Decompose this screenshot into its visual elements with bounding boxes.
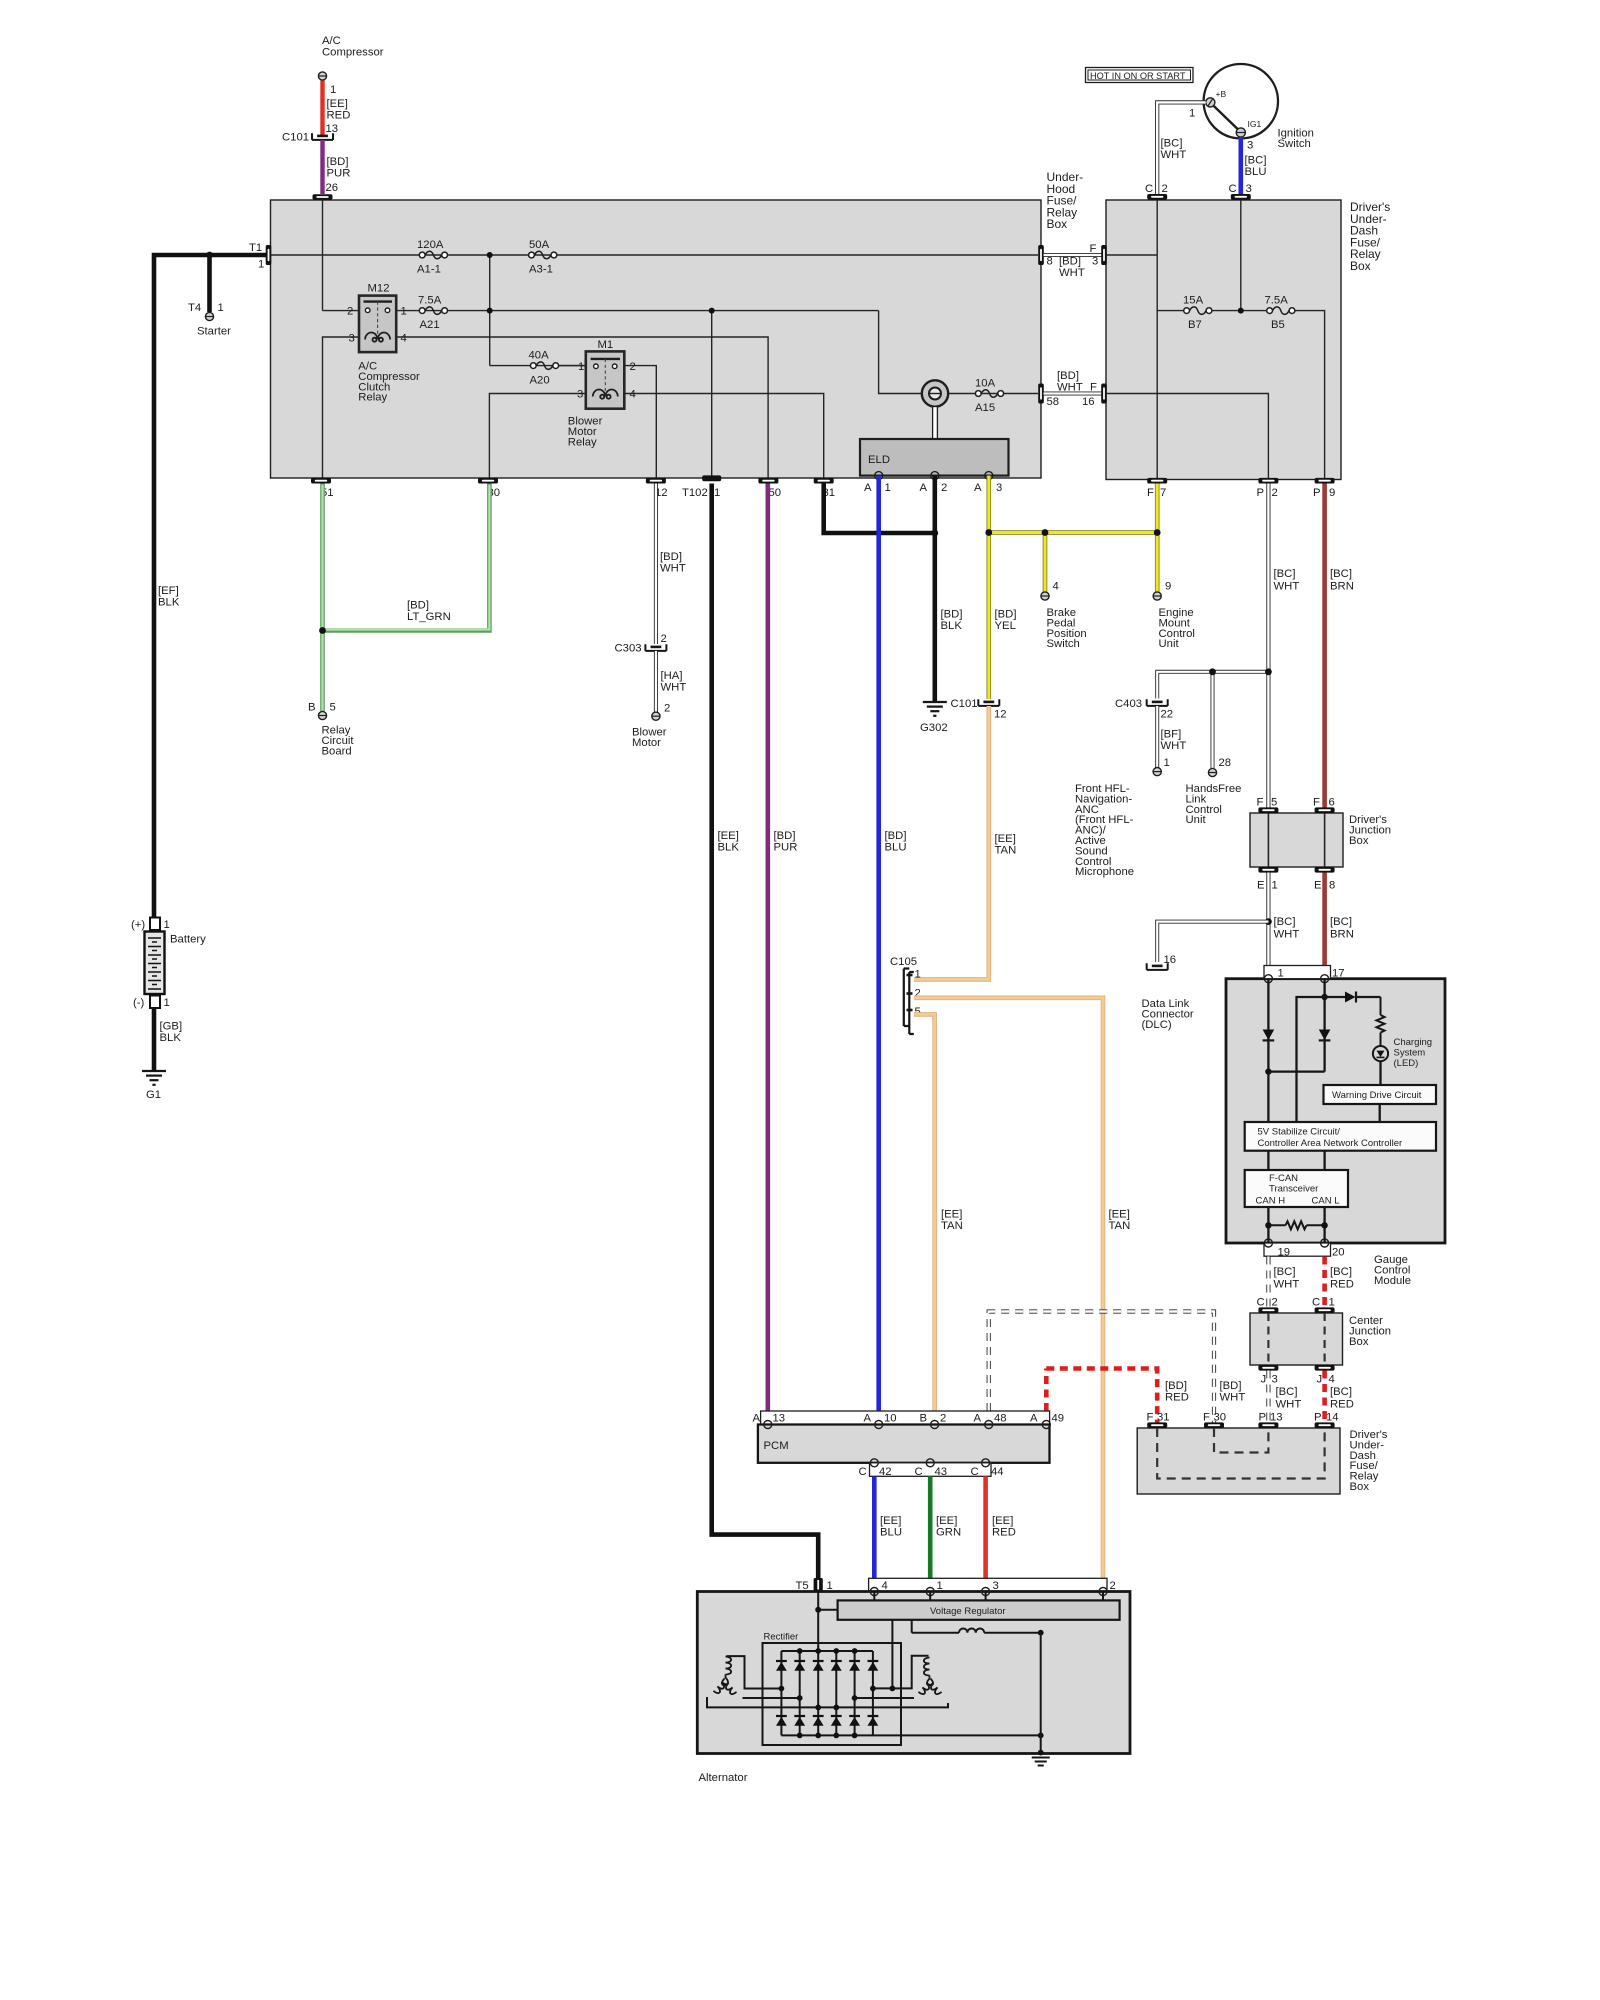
ground G1	[142, 1071, 166, 1085]
node field coil right	[1038, 1630, 1044, 1636]
svg-text:2: 2	[1272, 1297, 1278, 1309]
node col2 tap	[797, 1695, 803, 1701]
svg-text:C: C	[1257, 1297, 1265, 1309]
fuse 50A A3-1	[529, 251, 557, 259]
rectifier top bus	[781, 1650, 873, 1652]
svg-text:Compressor: Compressor	[322, 47, 384, 59]
Under-Hood Fuse/Relay Box body	[271, 200, 1042, 478]
svg-text:WHT: WHT	[1057, 382, 1083, 394]
svg-text:C: C	[1145, 183, 1153, 195]
svg-text:HOT IN ON OR START: HOT IN ON OR START	[1090, 71, 1186, 81]
svg-text:2: 2	[941, 482, 947, 494]
svg-text:F: F	[1090, 382, 1097, 394]
svg-text:Box: Box	[1349, 835, 1369, 847]
svg-text:C403: C403	[1115, 698, 1142, 710]
wire M1 pin4 to bar 31	[624, 394, 823, 479]
svg-text:Switch: Switch	[1278, 138, 1311, 150]
svg-text:1: 1	[885, 482, 891, 494]
svg-text:[EE]: [EE]	[327, 98, 348, 110]
relay M1 blower motor relay	[586, 351, 625, 408]
svg-text:A1-1: A1-1	[417, 264, 441, 276]
svg-text:Unit: Unit	[1186, 814, 1207, 826]
connector C303	[645, 644, 666, 651]
ignition switch circle	[1204, 64, 1278, 138]
alternator pin 2	[1099, 1588, 1107, 1596]
label relay circuit board	[322, 725, 355, 758]
svg-text:2: 2	[661, 633, 667, 645]
svg-text:4: 4	[630, 389, 636, 401]
svg-text:3: 3	[1247, 140, 1253, 152]
wire [BD] LT_GRN 51 down	[320, 484, 325, 631]
DJB internal wire F5-E1	[1267, 813, 1269, 867]
wire M1 pin3 to bar 30	[489, 394, 585, 479]
wire [BD] WHT 58 to 16	[1044, 392, 1102, 396]
bottom connector bar P9	[1315, 478, 1335, 484]
svg-text:3: 3	[349, 333, 355, 345]
wire F3 stub	[1106, 254, 1157, 256]
box2 internal dashed F31-P14	[1157, 1428, 1324, 1479]
alternator case ground	[1032, 1758, 1050, 1766]
node col5 tap	[852, 1695, 858, 1701]
svg-text:System: System	[1394, 1047, 1426, 1058]
svg-text:(LED): (LED)	[1394, 1058, 1419, 1069]
svg-text:[BD]: [BD]	[1220, 1380, 1242, 1392]
svg-text:F: F	[1090, 243, 1097, 255]
svg-text:WHT: WHT	[1274, 1279, 1300, 1291]
wire [GB] BLK battery to G1	[152, 1008, 157, 1071]
rectifier column 1	[780, 1651, 782, 1735]
connector bar F16 (driver's box left)	[1101, 384, 1107, 404]
wire [BD] WHT dashed PCM A48 to F30	[989, 1312, 1214, 1423]
svg-text:B: B	[308, 702, 316, 714]
svg-text:16: 16	[1082, 396, 1095, 408]
svg-text:P: P	[1314, 1412, 1322, 1424]
svg-text:F-CAN: F-CAN	[1269, 1173, 1298, 1184]
connector bar C2	[1147, 194, 1167, 200]
svg-text:Box: Box	[1350, 259, 1371, 273]
connector bar E1	[1258, 867, 1278, 873]
svg-text:3: 3	[1272, 1374, 1278, 1386]
svg-text:WHT: WHT	[1161, 149, 1187, 161]
svg-text:1: 1	[1164, 757, 1170, 769]
svg-text:Microphone: Microphone	[1075, 866, 1134, 878]
svg-text:1: 1	[937, 1580, 943, 1592]
connector bar P14	[1315, 1422, 1335, 1428]
wire [BC] WHT P2 down to DJB F5	[1266, 484, 1270, 808]
svg-text:F: F	[1203, 1412, 1210, 1424]
svg-text:58: 58	[1047, 396, 1060, 408]
wire [BC] WHT dashed J3 to P13	[1266, 1371, 1270, 1423]
wire A21 corner down to ELD line	[879, 311, 921, 394]
svg-text:C105: C105	[890, 956, 917, 968]
charging system LED	[1373, 1046, 1388, 1085]
svg-text:[BC]: [BC]	[1274, 916, 1296, 928]
svg-text:[BD]: [BD]	[1057, 370, 1079, 382]
node CAN L resistor	[1321, 1222, 1327, 1228]
svg-text:28: 28	[1219, 757, 1232, 769]
shared bottom phase line	[707, 1697, 948, 1707]
svg-text:E: E	[1257, 880, 1265, 892]
wire M12 pin1 to A21 line	[396, 310, 878, 312]
svg-text:19: 19	[1278, 1247, 1291, 1259]
fuse 7.5A A21	[419, 307, 447, 315]
svg-text:10A: 10A	[975, 378, 996, 390]
connector bar J3	[1258, 1365, 1278, 1371]
node pin17 warning tap	[1321, 994, 1327, 1000]
svg-text:(DLC): (DLC)	[1142, 1019, 1172, 1031]
wire M1 pin1 feed	[559, 365, 586, 367]
wire [BD] BLK 31 to G302 junction	[824, 484, 935, 534]
svg-text:Board: Board	[322, 745, 352, 757]
wire [HA] WHT C303 to blower motor	[654, 651, 658, 712]
svg-text:BRN: BRN	[1330, 581, 1354, 593]
svg-text:[BD]: [BD]	[1059, 256, 1081, 268]
battery (+) terminal	[150, 918, 160, 931]
PCM pin B2	[931, 1421, 939, 1429]
5V stabilize circuit box	[1245, 1122, 1436, 1151]
node yellow junction right	[1154, 529, 1161, 536]
wire [BD] RED dashed PCM A49 to F31	[1044, 1369, 1049, 1412]
svg-text:13: 13	[773, 1413, 786, 1425]
svg-text:BLU: BLU	[880, 1527, 902, 1539]
svg-text:P: P	[1313, 487, 1321, 499]
rectifier column 2	[799, 1651, 801, 1735]
wire vertical 120A junction down	[489, 255, 491, 366]
connector bar P13	[1258, 1422, 1278, 1428]
svg-text:[EE]: [EE]	[936, 1515, 957, 1527]
connector bar E8	[1315, 867, 1335, 873]
svg-text:B5: B5	[1271, 319, 1285, 331]
connector C101 pin 12	[978, 699, 999, 706]
svg-text:Box: Box	[1349, 1336, 1369, 1348]
connector bar 26	[313, 194, 333, 200]
svg-text:3: 3	[1246, 183, 1252, 195]
connector bar C3	[1231, 194, 1251, 200]
svg-text:T4: T4	[188, 302, 201, 314]
svg-text:8: 8	[1329, 880, 1335, 892]
node col6 tap	[870, 1686, 876, 1692]
PCM pin A49	[1042, 1421, 1050, 1429]
svg-text:20: 20	[1332, 1247, 1345, 1259]
gauge control module body	[1226, 979, 1445, 1243]
svg-text:4: 4	[401, 333, 407, 345]
svg-text:[BC]: [BC]	[1274, 1266, 1296, 1278]
svg-text:Unit: Unit	[1159, 638, 1180, 650]
GCM bottom pin header	[1264, 1243, 1331, 1256]
wire [BC] WHT ignition +B to C2	[1157, 102, 1206, 194]
svg-text:3: 3	[993, 1580, 999, 1592]
wire B5 to P9	[1292, 311, 1325, 478]
svg-text:Module: Module	[1374, 1275, 1411, 1287]
svg-text:[BD]: [BD]	[941, 609, 963, 621]
PCM pin A48	[985, 1421, 993, 1429]
wires pins to VR	[874, 1592, 1103, 1601]
svg-text:1: 1	[401, 306, 407, 318]
svg-text:C101: C101	[282, 132, 309, 144]
rectifier column 3	[817, 1651, 819, 1735]
wire DLC white branch	[1157, 922, 1268, 962]
svg-text:5: 5	[1271, 797, 1277, 809]
svg-text:PUR: PUR	[774, 842, 798, 854]
svg-text:+B: +B	[1216, 89, 1227, 99]
ignition switch blade	[1214, 106, 1238, 129]
wire [BD] PUR 50 to PCM A13	[765, 484, 770, 1412]
svg-text:3: 3	[577, 389, 583, 401]
svg-text:[BC]: [BC]	[1274, 568, 1296, 580]
svg-text:48: 48	[994, 1413, 1007, 1425]
wire [EE] RED A/C compressor to C101	[320, 81, 324, 136]
connector C403 pin 22	[1147, 699, 1168, 706]
node white junction on P2 wire	[1265, 668, 1272, 675]
wire [EE] BLK T102 to alternator T5	[712, 484, 819, 1579]
A/C compressor terminal 1	[318, 72, 326, 80]
svg-text:WHT: WHT	[1220, 1392, 1246, 1404]
svg-text:T1: T1	[249, 242, 262, 254]
node 120A/50A junction	[487, 252, 493, 258]
svg-text:[BC]: [BC]	[1276, 1386, 1298, 1398]
DJB internal wire F6-E8	[1324, 813, 1326, 867]
node yellow junction left	[985, 529, 992, 536]
resistor R1 (LED branch)	[1377, 997, 1385, 1046]
svg-text:1: 1	[164, 997, 170, 1009]
svg-text:1: 1	[1189, 108, 1195, 120]
svg-text:WHT: WHT	[660, 563, 686, 575]
svg-text:3: 3	[1092, 256, 1098, 268]
label brake pedal position switch	[1047, 607, 1087, 650]
svg-text:BLK: BLK	[718, 842, 740, 854]
svg-text:2: 2	[940, 1413, 946, 1425]
GCM internal CAN-H line with diode	[1267, 979, 1269, 1122]
starter terminal T4-1	[205, 312, 213, 320]
svg-text:22: 22	[1161, 709, 1174, 721]
svg-text:WHT: WHT	[1276, 1399, 1302, 1411]
label Driver's Under-Dash Fuse/Relay Box (2)	[1350, 1429, 1388, 1493]
PCM bottom pin header	[870, 1463, 992, 1477]
node VR/col6	[890, 1686, 896, 1692]
PCM body	[758, 1425, 1050, 1463]
svg-text:31: 31	[1157, 1412, 1170, 1424]
svg-text:TAN: TAN	[995, 845, 1017, 857]
alternator body	[697, 1592, 1130, 1754]
wire 26 down to M12 pin 2 level	[322, 200, 324, 311]
wire [BD] YEL brake pedal branch	[1043, 533, 1048, 593]
svg-text:1: 1	[714, 487, 720, 499]
svg-text:10: 10	[884, 1413, 897, 1425]
battery (-) terminal	[150, 996, 160, 1009]
svg-text:B7: B7	[1188, 319, 1202, 331]
svg-text:A20: A20	[530, 375, 550, 387]
svg-text:BRN: BRN	[1330, 929, 1354, 941]
CJB internal dashed C1-J4	[1323, 1313, 1325, 1365]
svg-text:WHT: WHT	[661, 682, 687, 694]
svg-text:49: 49	[1052, 1413, 1065, 1425]
PCM pin C42	[870, 1459, 878, 1467]
phase tap col6 to right winding	[873, 1656, 929, 1689]
wire [EE] TAN C105 pin2 to alternator pin2	[914, 998, 1103, 1578]
rectifier bottom bus nodes	[797, 1733, 1044, 1739]
svg-text:PUR: PUR	[327, 168, 351, 180]
svg-text:BLU: BLU	[885, 842, 907, 854]
connector bar J4	[1315, 1365, 1335, 1371]
svg-text:RED: RED	[1165, 1392, 1189, 1404]
svg-text:Switch: Switch	[1047, 638, 1080, 650]
wire T102 drop	[711, 311, 713, 478]
alternator pin header	[869, 1578, 1107, 1591]
svg-text:5V Stabilize Circuit/: 5V Stabilize Circuit/	[1258, 1127, 1341, 1138]
ignition +B terminal	[1206, 89, 1227, 107]
wire warning box to 5V box	[1379, 1104, 1381, 1122]
svg-text:[BD]: [BD]	[995, 609, 1017, 621]
svg-text:2: 2	[347, 306, 353, 318]
svg-text:1: 1	[330, 84, 336, 96]
svg-text:Relay: Relay	[568, 436, 597, 448]
svg-text:J: J	[1261, 1374, 1267, 1386]
label HandsFree Link Control Unit	[1186, 783, 1242, 826]
svg-text:Controller Area Network Contro: Controller Area Network Controller	[1258, 1138, 1403, 1149]
svg-text:4: 4	[1329, 1374, 1335, 1386]
wire [BD] BLK ELD A2 to G302	[932, 476, 937, 702]
svg-text:30: 30	[1214, 1412, 1227, 1424]
svg-text:12: 12	[994, 709, 1007, 721]
wire [BF] WHT horizontal	[1157, 672, 1268, 699]
phase tap col1 to left winding	[727, 1656, 782, 1688]
svg-text:G1: G1	[146, 1089, 161, 1101]
rectifier box	[763, 1643, 902, 1745]
svg-text:7.5A: 7.5A	[1265, 295, 1289, 307]
svg-text:J: J	[1317, 1374, 1323, 1386]
label Driver's Junction Box	[1349, 814, 1391, 847]
svg-text:[BD]: [BD]	[327, 156, 349, 168]
wire [EE] BLU PCM C42 to alternator pin4	[872, 1476, 877, 1578]
svg-text:C101: C101	[951, 698, 978, 710]
svg-text:PCM: PCM	[764, 1440, 789, 1452]
PCM pin C44	[982, 1459, 990, 1467]
svg-text:C: C	[915, 1466, 923, 1478]
svg-text:P: P	[1259, 1412, 1267, 1424]
wire fuse row B7/B5	[1157, 310, 1184, 312]
GCM pin 17	[1321, 975, 1329, 983]
svg-text:[BD]: [BD]	[885, 830, 907, 842]
svg-text:T102: T102	[682, 487, 708, 499]
diode D3 (warning branch, right-pointing)	[1345, 992, 1381, 1003]
bottom connector bar 30	[478, 478, 498, 484]
svg-text:1: 1	[218, 302, 224, 314]
svg-text:T5: T5	[796, 1580, 809, 1592]
svg-text:A: A	[974, 1413, 982, 1425]
svg-text:A: A	[974, 482, 982, 494]
svg-text:43: 43	[935, 1466, 948, 1478]
svg-text:1: 1	[578, 361, 584, 373]
svg-text:[EE]: [EE]	[995, 833, 1016, 845]
svg-text:TAN: TAN	[941, 1220, 963, 1232]
node col4 tap	[833, 1705, 839, 1711]
wire [BD] YEL horizontal branch	[989, 530, 1157, 535]
GCM warning branch wire	[1297, 997, 1346, 1122]
svg-text:A: A	[1030, 1413, 1038, 1425]
svg-text:C: C	[1229, 183, 1237, 195]
PCM top pin header	[761, 1411, 1050, 1425]
box2 internal dashed F30-P13	[1214, 1428, 1268, 1453]
wire 40A feed	[490, 365, 586, 367]
svg-text:[GB]: [GB]	[160, 1021, 183, 1033]
svg-text:CAN L: CAN L	[1312, 1196, 1340, 1207]
label Center Junction Box	[1349, 1315, 1391, 1348]
wire [BD] PUR C101 to under-hood box pin 26	[320, 140, 324, 194]
relay circuit board terminal B5	[318, 711, 326, 719]
bottom connector bar F7	[1147, 478, 1167, 484]
svg-text:[EF]: [EF]	[158, 585, 179, 597]
svg-text:1: 1	[827, 1580, 833, 1592]
svg-text:GRN: GRN	[936, 1527, 961, 1539]
connector C105	[904, 969, 914, 1035]
alternator pin 4	[870, 1588, 878, 1596]
rectifier top bus nodes	[797, 1648, 858, 1654]
svg-text:1: 1	[258, 259, 264, 271]
svg-text:G302: G302	[920, 722, 948, 734]
HOT IN ON OR START box	[1086, 68, 1194, 83]
wire [BC] WHT E1 to gauge module pin1	[1266, 873, 1270, 966]
wire [BD] BLU ELD A1 to PCM A10	[876, 476, 881, 1411]
phase tap col5 to right winding	[855, 1697, 914, 1699]
wire handsfree drop	[1211, 672, 1215, 768]
node col3 tap	[815, 1705, 821, 1711]
connector 16 data link connector	[1147, 963, 1168, 970]
ELD box	[860, 439, 1009, 476]
node G302 junction	[931, 530, 938, 537]
wire F16 to P2	[1106, 394, 1268, 479]
right stator winding	[918, 1658, 941, 1696]
svg-text:14: 14	[1326, 1412, 1339, 1424]
svg-text:2: 2	[1162, 183, 1168, 195]
wire [BD] YEL ELD A3 down to C101	[986, 476, 991, 699]
bottom connector bar 12	[646, 478, 666, 484]
label Charging System (LED)	[1394, 1037, 1433, 1069]
svg-text:7: 7	[1160, 487, 1166, 499]
alternator pin 1	[926, 1588, 934, 1596]
PCM pin C43	[926, 1459, 934, 1467]
GCM pin 1	[1264, 975, 1272, 983]
svg-text:[BD]: [BD]	[1165, 1380, 1187, 1392]
node CAN H resistor	[1265, 1222, 1271, 1228]
svg-text:C: C	[1312, 1297, 1320, 1309]
relay M12 A/C compressor clutch relay	[359, 296, 396, 353]
connector T5	[814, 1578, 823, 1592]
svg-text:2: 2	[664, 703, 670, 715]
connector bar F31	[1147, 1422, 1167, 1428]
label Gauge Control Module	[1374, 1254, 1411, 1287]
svg-text:IG1: IG1	[1248, 119, 1262, 129]
svg-text:[BC]: [BC]	[1330, 916, 1352, 928]
wire [EE] TAN C101 to C105 pin1	[914, 706, 989, 979]
bottom connector bar 50	[758, 478, 778, 484]
svg-text:F: F	[1147, 1412, 1154, 1424]
wire C3 down to fuse row	[1240, 200, 1242, 311]
svg-text:Warning Drive Circuit: Warning Drive Circuit	[1332, 1090, 1422, 1101]
svg-text:WHT: WHT	[1274, 581, 1300, 593]
svg-text:[BF]: [BF]	[1161, 729, 1182, 741]
svg-text:16: 16	[1164, 954, 1177, 966]
VR to col6 line vertical	[891, 1620, 893, 1689]
alternator pin 3	[982, 1588, 990, 1596]
connector C101 pin 13	[312, 133, 333, 140]
svg-text:BLU: BLU	[1245, 166, 1267, 178]
HFL microphone terminal 1	[1153, 768, 1161, 776]
svg-text:[EE]: [EE]	[992, 1515, 1013, 1527]
connector bar F30	[1204, 1422, 1224, 1428]
connector bar 58	[1038, 384, 1044, 404]
svg-text:2: 2	[630, 361, 636, 373]
svg-text:A: A	[864, 1413, 872, 1425]
